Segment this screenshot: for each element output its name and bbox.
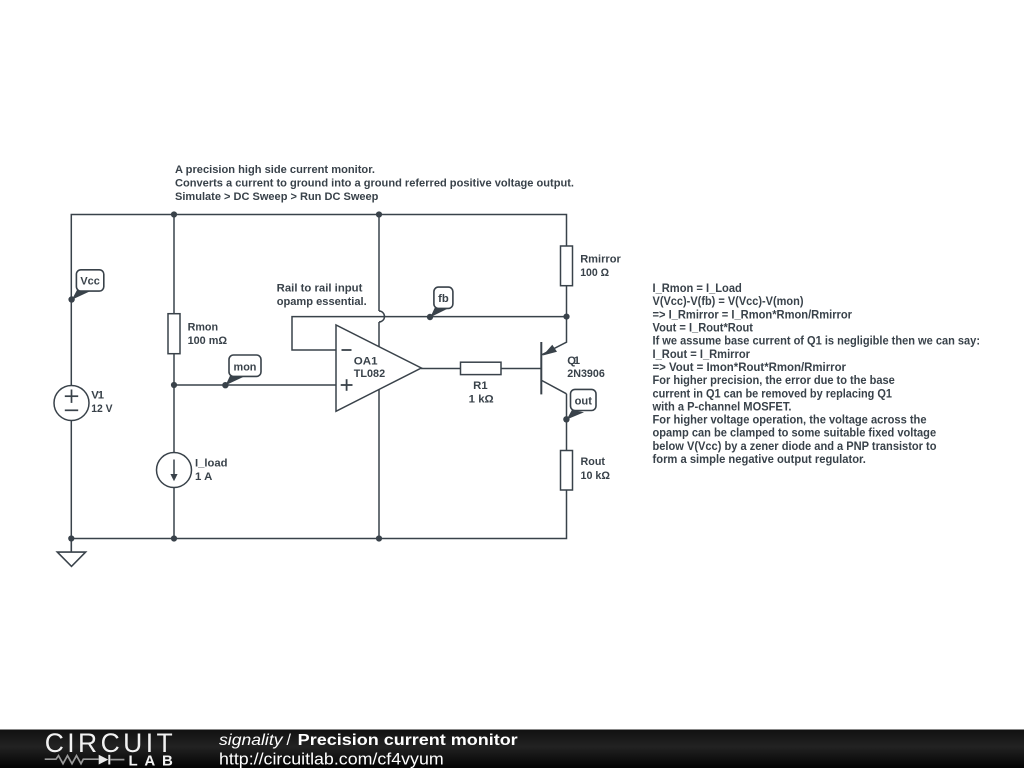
svg-text:If we assume base current of Q: If we assume base current of Q1 is negli…	[653, 334, 981, 348]
node flag out	[563, 389, 596, 422]
svg-text:below V(Vcc) by a zener diode: below V(Vcc) by a zener diode and a PNP …	[653, 439, 937, 453]
svg-text:1 A: 1 A	[195, 471, 212, 483]
svg-text:Precision current monitor: Precision current monitor	[298, 732, 518, 749]
wire I_load bottom to ground rail	[173, 488, 175, 539]
svg-text:Q1: Q1	[567, 355, 580, 367]
svg-text:Converts a current to ground i: Converts a current to ground into a grou…	[175, 178, 574, 190]
wire Q1 collector to out node and Rout top	[566, 394, 568, 451]
svg-text:OA1: OA1	[354, 356, 378, 368]
svg-text:R1: R1	[473, 380, 487, 392]
wire R1 to Q1 base	[501, 368, 541, 370]
wire Rmon bottom to mon node	[173, 354, 175, 385]
svg-text:signality: signality	[219, 732, 284, 749]
wire V1 bottom to ground rail	[70, 421, 72, 539]
wire Rmon top	[173, 215, 175, 314]
svg-text:=> Vout = Imon*Rout*Rmon/Rmirr: => Vout = Imon*Rout*Rmon/Rmirror	[653, 360, 847, 374]
annotation rail to rail	[277, 283, 367, 308]
CircuitLab logo resistor zigzag	[45, 756, 99, 764]
node junction top rail middle vertical	[376, 211, 382, 217]
svg-text:Vout = I_Rout*Rout: Vout = I_Rout*Rout	[653, 321, 754, 335]
wire mon node to op-amp plus input	[174, 384, 336, 386]
wire op-amp output to R1	[421, 368, 461, 370]
svg-text:2N3906: 2N3906	[567, 368, 605, 380]
svg-text:For higher voltage operation,: For higher voltage operation, the voltag…	[653, 413, 927, 427]
label V1 value	[91, 390, 113, 416]
svg-text:opamp essential.: opamp essential.	[277, 296, 367, 308]
svg-text:100 Ω: 100 Ω	[580, 267, 609, 279]
svg-text:I_Rmon = I_Load: I_Rmon = I_Load	[653, 281, 742, 295]
svg-text:http://circuitlab.com/cf4vyum: http://circuitlab.com/cf4vyum	[219, 750, 444, 768]
annotation top description	[175, 164, 574, 203]
svg-text:I_load: I_load	[195, 457, 228, 469]
svg-text:Simulate > DC Sweep > Run DC S: Simulate > DC Sweep > Run DC Sweep	[175, 191, 378, 203]
svg-text:/: /	[287, 732, 292, 749]
label Rmirror value	[580, 254, 621, 279]
node flag fb	[427, 287, 453, 320]
wire hop over feedback wire	[379, 311, 385, 322]
svg-text:current in Q1 can be removed b: current in Q1 can be removed by replacin…	[653, 386, 893, 400]
op-amp OA1	[336, 325, 421, 411]
node junction mon	[171, 382, 177, 388]
annotation right analysis text	[652, 281, 980, 466]
node flag Vcc	[68, 270, 103, 303]
label R1 value	[469, 380, 494, 405]
node junction emitter feedback	[563, 314, 569, 320]
svg-text:10 kΩ: 10 kΩ	[581, 470, 611, 482]
resistor R1	[461, 362, 502, 374]
label Rout value	[581, 456, 611, 482]
svg-text:form a simple negative output: form a simple negative output regulator.	[653, 452, 866, 466]
footer bar	[0, 730, 1024, 768]
svg-text:fb: fb	[438, 293, 449, 305]
svg-text:12 V: 12 V	[91, 403, 113, 415]
svg-text:Rout: Rout	[581, 456, 606, 468]
transistor Q1	[541, 317, 566, 395]
wire Rmirror bottom to emitter node	[566, 286, 568, 317]
svg-text:Vcc: Vcc	[80, 276, 99, 288]
resistor Rout	[561, 451, 573, 491]
wire middle vertical lower segment	[378, 322, 380, 539]
svg-text:mon: mon	[234, 361, 257, 373]
svg-text:V(Vcc)-V(fb) = V(Vcc)-V(mon): V(Vcc)-V(fb) = V(Vcc)-V(mon)	[653, 294, 804, 308]
voltage source V1	[54, 386, 89, 421]
resistor Rmirror	[561, 246, 573, 286]
svg-text:I_Rout = I_Rmirror: I_Rout = I_Rmirror	[653, 347, 751, 361]
wire mon node down to I_load top	[173, 385, 175, 453]
label OA1 value	[354, 356, 385, 381]
svg-text:=> I_Rmirror = I_Rmon*Rmon/Rmi: => I_Rmirror = I_Rmon*Rmon/Rmirror	[653, 307, 853, 321]
svg-text:Rmon: Rmon	[188, 322, 219, 334]
svg-text:1 kΩ: 1 kΩ	[469, 393, 494, 405]
svg-text:out: out	[575, 395, 593, 407]
svg-text:A precision high side current: A precision high side current monitor.	[175, 164, 375, 176]
svg-text:TL082: TL082	[354, 368, 385, 380]
svg-text:For higher precision, the erro: For higher precision, the error due to t…	[653, 373, 895, 387]
wire op-amp minus input and feedback loop to emitter node	[292, 317, 567, 350]
node junction bottom rail middle vertical	[376, 535, 382, 541]
svg-text:100 mΩ: 100 mΩ	[188, 335, 228, 347]
label Q1 value	[567, 355, 605, 380]
wire bottom ground rail and Rout bottom	[71, 490, 566, 539]
node junction bottom rail I_load	[171, 535, 177, 541]
svg-text:opamp can be clamped to some s: opamp can be clamped to some suitable fi…	[653, 426, 937, 440]
node junction top rail Rmon	[171, 211, 177, 217]
wire middle vertical upper segment	[378, 215, 380, 312]
CircuitLab logo diode	[99, 755, 125, 765]
node junction bottom rail ground	[68, 535, 74, 541]
wire top Vcc rail and left vertical to V1	[71, 215, 566, 386]
resistor Rmon	[168, 314, 180, 354]
label I_load value	[195, 457, 228, 483]
svg-text:Rmirror: Rmirror	[580, 254, 621, 266]
svg-text:V1: V1	[91, 390, 104, 402]
ground	[57, 539, 85, 567]
svg-text:LAB: LAB	[129, 752, 173, 768]
svg-text:Rail to rail input: Rail to rail input	[277, 283, 363, 295]
current source I_load	[157, 453, 192, 488]
svg-text:with a P-channel MOSFET.: with a P-channel MOSFET.	[652, 399, 792, 413]
node flag mon	[222, 355, 261, 388]
label Rmon value	[188, 322, 228, 347]
